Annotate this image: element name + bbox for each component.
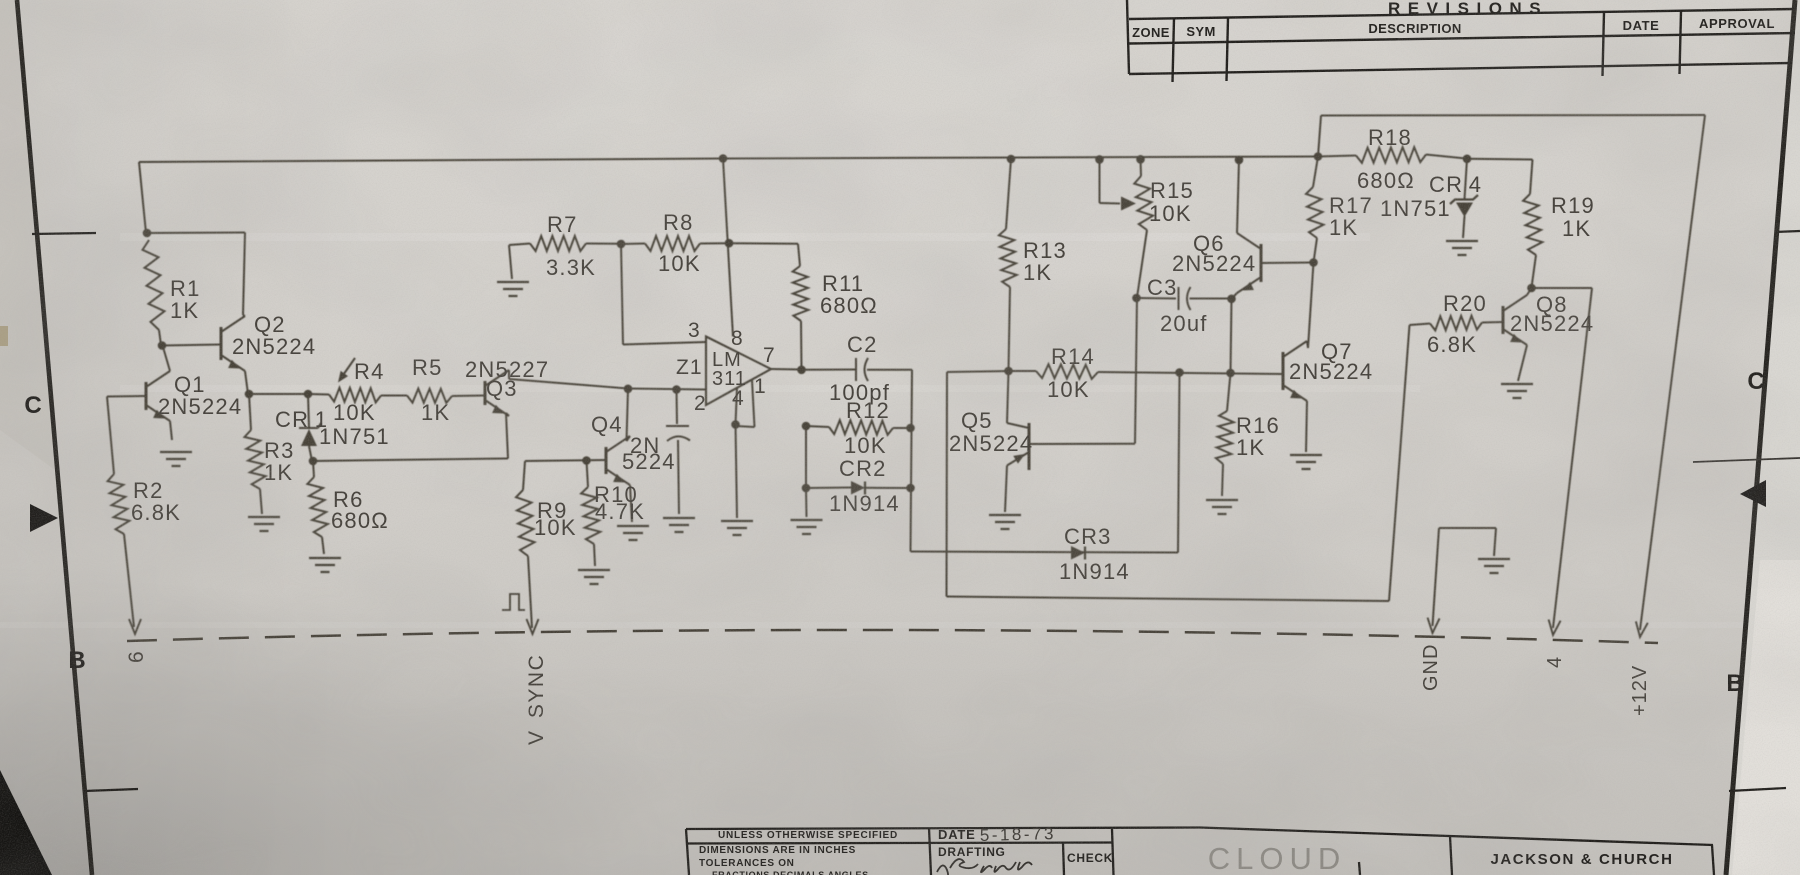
- svg-text:R7: R7: [547, 212, 578, 237]
- svg-text:3: 3: [688, 319, 701, 342]
- svg-text:R8: R8: [663, 210, 694, 235]
- svg-text:1K: 1K: [1562, 216, 1591, 241]
- svg-text:1K: 1K: [1329, 215, 1358, 240]
- svg-text:CLOUD: CLOUD: [1208, 841, 1347, 875]
- svg-text:1K: 1K: [264, 460, 293, 485]
- svg-text:5224: 5224: [622, 449, 676, 474]
- svg-text:APPROVAL: APPROVAL: [1699, 16, 1775, 31]
- svg-text:1N914: 1N914: [829, 491, 900, 516]
- svg-text:6.8K: 6.8K: [1427, 332, 1477, 357]
- svg-text:CR 4: CR 4: [1429, 172, 1482, 197]
- svg-text:680Ω: 680Ω: [331, 508, 389, 533]
- svg-text:CHECK: CHECK: [1067, 851, 1113, 865]
- svg-text:4: 4: [1544, 656, 1566, 668]
- svg-text:1K: 1K: [1023, 260, 1052, 285]
- svg-text:DATE: DATE: [938, 827, 976, 842]
- svg-text:TOLERANCES ON: TOLERANCES ON: [699, 858, 795, 869]
- svg-text:DESCRIPTION: DESCRIPTION: [1368, 21, 1461, 36]
- svg-text:Q3: Q3: [486, 376, 518, 401]
- svg-text:Z1: Z1: [676, 356, 703, 379]
- svg-text:R15: R15: [1150, 178, 1194, 203]
- svg-text:REVISIONS: REVISIONS: [1388, 0, 1548, 18]
- svg-text:JACKSON & CHURCH: JACKSON & CHURCH: [1490, 851, 1673, 868]
- svg-text:8: 8: [731, 327, 744, 350]
- svg-text:20uf: 20uf: [1160, 311, 1208, 336]
- svg-text:10K: 10K: [1149, 201, 1192, 226]
- svg-text:1: 1: [754, 375, 767, 398]
- svg-text:680Ω: 680Ω: [820, 293, 878, 318]
- svg-text:R14: R14: [1051, 344, 1095, 369]
- svg-text:680Ω: 680Ω: [1357, 168, 1415, 193]
- svg-text:10K: 10K: [658, 251, 701, 276]
- svg-text:C3: C3: [1147, 275, 1178, 300]
- svg-text:Q5: Q5: [961, 408, 993, 433]
- svg-text:2N5224: 2N5224: [232, 334, 316, 359]
- svg-text:1K: 1K: [1236, 435, 1265, 460]
- svg-text:4: 4: [732, 387, 745, 410]
- svg-text:7: 7: [763, 344, 776, 367]
- svg-text:5-18-73: 5-18-73: [980, 824, 1057, 845]
- svg-text:2N5224: 2N5224: [1510, 311, 1594, 336]
- svg-text:2N5224: 2N5224: [949, 431, 1033, 456]
- svg-text:CR2: CR2: [839, 456, 887, 481]
- svg-text:C2: C2: [847, 332, 878, 357]
- svg-text:10K: 10K: [844, 433, 887, 458]
- svg-text:R4: R4: [354, 359, 385, 384]
- svg-text:GND: GND: [1420, 644, 1442, 691]
- svg-text:B: B: [1726, 670, 1743, 697]
- svg-text:10K: 10K: [534, 515, 577, 540]
- svg-text:R5: R5: [412, 355, 443, 380]
- svg-text:UNLESS OTHERWISE SPECIFIED: UNLESS OTHERWISE SPECIFIED: [718, 830, 898, 841]
- svg-text:6.8K: 6.8K: [131, 500, 181, 525]
- svg-text:10K: 10K: [1047, 377, 1090, 402]
- svg-text:+12V: +12V: [1629, 665, 1651, 716]
- svg-text:SYM: SYM: [1186, 24, 1215, 39]
- svg-text:2N5224: 2N5224: [1289, 359, 1373, 384]
- svg-text:B: B: [68, 647, 85, 674]
- svg-text:DIMENSIONS ARE IN INCHES: DIMENSIONS ARE IN INCHES: [699, 845, 856, 856]
- svg-text:R12: R12: [846, 398, 890, 423]
- svg-text:1K: 1K: [421, 400, 450, 425]
- svg-text:10K: 10K: [333, 400, 376, 425]
- svg-text:C: C: [1747, 368, 1764, 395]
- svg-text:1N751: 1N751: [319, 424, 390, 449]
- svg-text:1N751: 1N751: [1380, 196, 1451, 221]
- svg-text:FRACTIONS DECIMALS A: FRACTIONS DECIMALS ANGLES: [712, 870, 869, 875]
- svg-text:V SYNC: V SYNC: [525, 654, 548, 745]
- svg-text:Q4: Q4: [591, 412, 623, 437]
- svg-text:2N5224: 2N5224: [158, 394, 242, 419]
- svg-text:CR3: CR3: [1064, 524, 1112, 549]
- svg-text:DATE: DATE: [1623, 18, 1660, 33]
- svg-text:R18: R18: [1368, 125, 1412, 150]
- svg-text:C: C: [24, 392, 41, 419]
- svg-text:R20: R20: [1443, 291, 1487, 316]
- svg-text:3.3K: 3.3K: [546, 255, 596, 280]
- svg-text:2N5224: 2N5224: [1172, 251, 1256, 276]
- svg-text:R19: R19: [1551, 193, 1595, 218]
- svg-text:2: 2: [694, 392, 707, 415]
- svg-text:6: 6: [125, 650, 148, 663]
- svg-text:ZONE: ZONE: [1132, 25, 1170, 40]
- svg-text:DRAFTING: DRAFTING: [938, 845, 1006, 859]
- svg-text:4.7K: 4.7K: [595, 499, 645, 524]
- svg-text:1K: 1K: [170, 298, 199, 323]
- svg-text:1N914: 1N914: [1059, 559, 1130, 584]
